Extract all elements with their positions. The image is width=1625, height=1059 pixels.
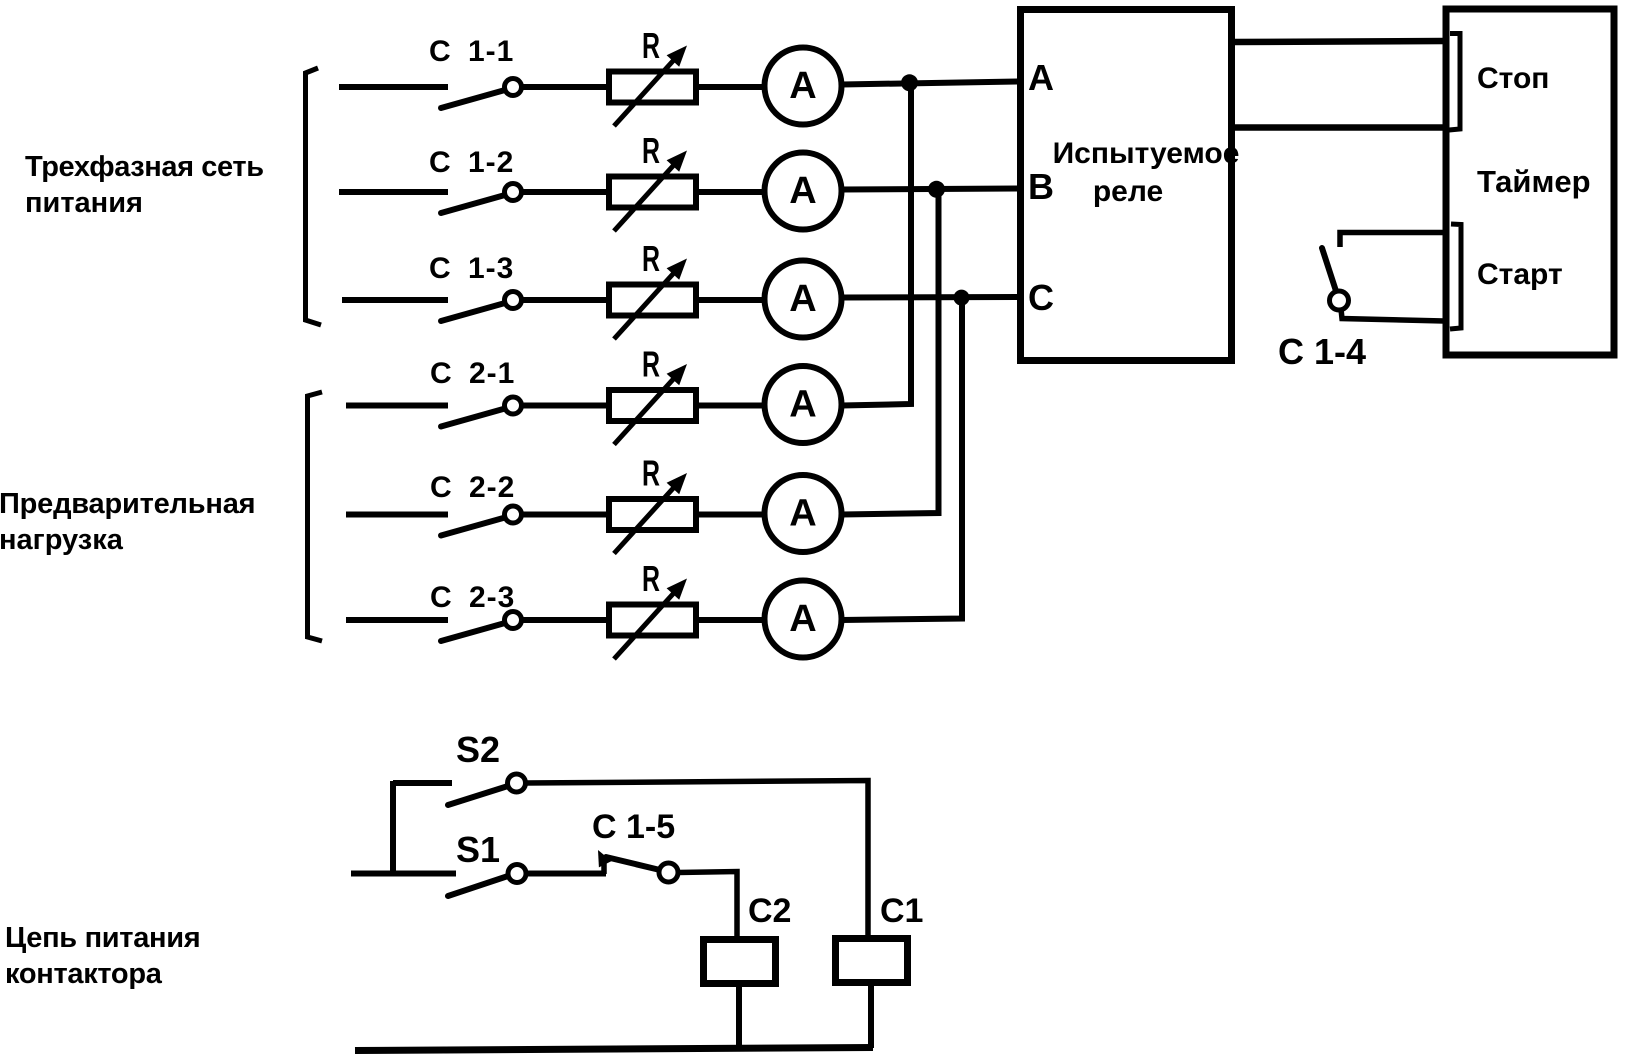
switch C1-3 with label (342, 252, 522, 321)
wire C2 to bottom bus (736, 987, 742, 1049)
switch C2-1 with label (346, 357, 522, 427)
wire resistor to ammeter row 4 (699, 403, 766, 409)
wire resistor to ammeter row 5 (699, 512, 766, 518)
wire relay to timer stop lower (1234, 124, 1444, 131)
svg-text:A: A (789, 278, 816, 320)
wire C2-2 ammeter to bus junction (842, 190, 939, 515)
svg-text:Трехфазная сеть: Трехфазная сеть (25, 151, 264, 183)
switch C1-2 with label (339, 146, 522, 213)
wire C2-1 to resistor (521, 403, 609, 409)
bottom bus wire (355, 1048, 873, 1051)
svg-text:C2: C2 (748, 892, 791, 930)
svg-text:R: R (642, 25, 660, 66)
ammeter A row 5 (765, 475, 842, 552)
svg-text:C 1-4: C 1-4 (1278, 331, 1366, 372)
ammeter A row 4 (765, 366, 842, 443)
svg-text:C 2-3: C 2-3 (430, 581, 515, 614)
svg-text:Предварительная: Предварительная (0, 488, 255, 520)
switch S1 with label (448, 829, 526, 896)
wire S1 to C1-5 (526, 871, 606, 877)
coil C2 (704, 892, 792, 984)
switch C2-2 with label (346, 471, 522, 536)
svg-text:C 1-1: C 1-1 (429, 35, 514, 68)
svg-text:C 1-5: C 1-5 (592, 808, 675, 846)
ammeter A row 6 (765, 581, 842, 658)
wire C1-1 ammeter to relay terminal (842, 82, 1020, 85)
ammeter A row 2 (765, 153, 842, 230)
switch C1-4 with wires (1278, 233, 1444, 373)
bracket stop terminals (1449, 34, 1460, 131)
junction node C (954, 290, 970, 306)
bracket preload group (308, 392, 323, 641)
wire left vertical S2-S1 (390, 781, 396, 876)
svg-text:S2: S2 (456, 729, 500, 770)
svg-text:C 1-3: C 1-3 (429, 252, 514, 285)
variable resistor R row 6 (609, 558, 696, 659)
svg-text:Стоп: Стоп (1477, 62, 1549, 95)
switch C1-1 with label (339, 35, 522, 108)
svg-text:контактора: контактора (5, 958, 163, 990)
svg-text:питания: питания (25, 187, 143, 219)
svg-text:A: A (1028, 57, 1054, 98)
variable resistor R row 5 (609, 453, 696, 554)
wire C2-1 ammeter to bus junction (842, 83, 912, 406)
svg-text:R: R (642, 238, 660, 279)
wire C1-3 to resistor (521, 297, 609, 303)
svg-text:A: A (789, 493, 816, 535)
variable resistor R row 3 (609, 238, 696, 339)
box relay under test (Испытуемое реле) (1021, 10, 1240, 361)
variable resistor R row 2 (609, 130, 696, 231)
wire C1-5 to coil C2 (678, 872, 737, 939)
label contactor supply circuit (5, 922, 200, 990)
svg-text:R: R (642, 130, 660, 171)
svg-text:A: A (789, 384, 816, 426)
bracket three-phase group (306, 68, 322, 325)
variable resistor R row 4 (609, 344, 696, 445)
svg-text:реле: реле (1093, 175, 1163, 208)
switch S2 with label (393, 729, 526, 805)
wire resistor to ammeter row 3 (699, 297, 766, 303)
svg-text:C 1-2: C 1-2 (429, 146, 514, 179)
wire C2-3 to resistor (521, 617, 609, 623)
wire C2-2 to resistor (521, 512, 609, 518)
wire C1-2 ammeter to relay terminal (842, 189, 1020, 190)
bracket start terminals (1450, 224, 1461, 329)
wire C1-2 to resistor (521, 189, 609, 195)
box timer (Таймер) (1446, 9, 1614, 355)
svg-text:C: C (1028, 277, 1054, 318)
svg-text:Старт: Старт (1477, 258, 1563, 291)
svg-text:A: A (789, 598, 816, 640)
coil C1 (836, 892, 924, 983)
svg-text:Испытуемое: Испытуемое (1053, 137, 1240, 170)
wire C1 to bottom bus (868, 986, 874, 1048)
wire resistor to ammeter row 6 (699, 617, 766, 623)
svg-text:R: R (642, 344, 660, 385)
variable resistor R row 1 (609, 25, 696, 126)
svg-text:S1: S1 (456, 829, 500, 870)
svg-text:нагрузка: нагрузка (0, 524, 124, 556)
svg-text:R: R (642, 453, 660, 494)
wire S2 to coil C1 (525, 781, 868, 938)
wire C2-3 ammeter to bus junction (842, 298, 963, 620)
wire resistor to ammeter row 2 (699, 189, 766, 195)
svg-text:C 2-1: C 2-1 (430, 357, 515, 390)
svg-text:A: A (789, 65, 816, 107)
svg-text:Цепь питания: Цепь питания (5, 922, 200, 954)
svg-text:Таймер: Таймер (1477, 164, 1591, 199)
wire C1-3 ammeter to relay terminal (842, 294, 1020, 301)
wire S1 left stub (351, 871, 456, 877)
svg-text:B: B (1028, 166, 1054, 207)
svg-text:A: A (789, 170, 816, 212)
ammeter A row 3 (765, 261, 842, 338)
ammeter A row 1 (765, 48, 842, 125)
label three-phase network (25, 151, 264, 219)
wire relay to timer stop upper (1234, 41, 1444, 42)
svg-text:C 2-2: C 2-2 (430, 471, 515, 504)
junction node A (901, 74, 918, 91)
wire resistor to ammeter row 1 (699, 84, 766, 90)
junction node B (928, 181, 945, 198)
wire C1-1 to resistor (521, 84, 609, 90)
switch C1-5 with label (592, 808, 678, 882)
switch C2-3 with label (346, 581, 522, 641)
label preliminary load (0, 488, 255, 556)
svg-text:R: R (642, 558, 660, 599)
svg-text:C1: C1 (880, 892, 923, 930)
